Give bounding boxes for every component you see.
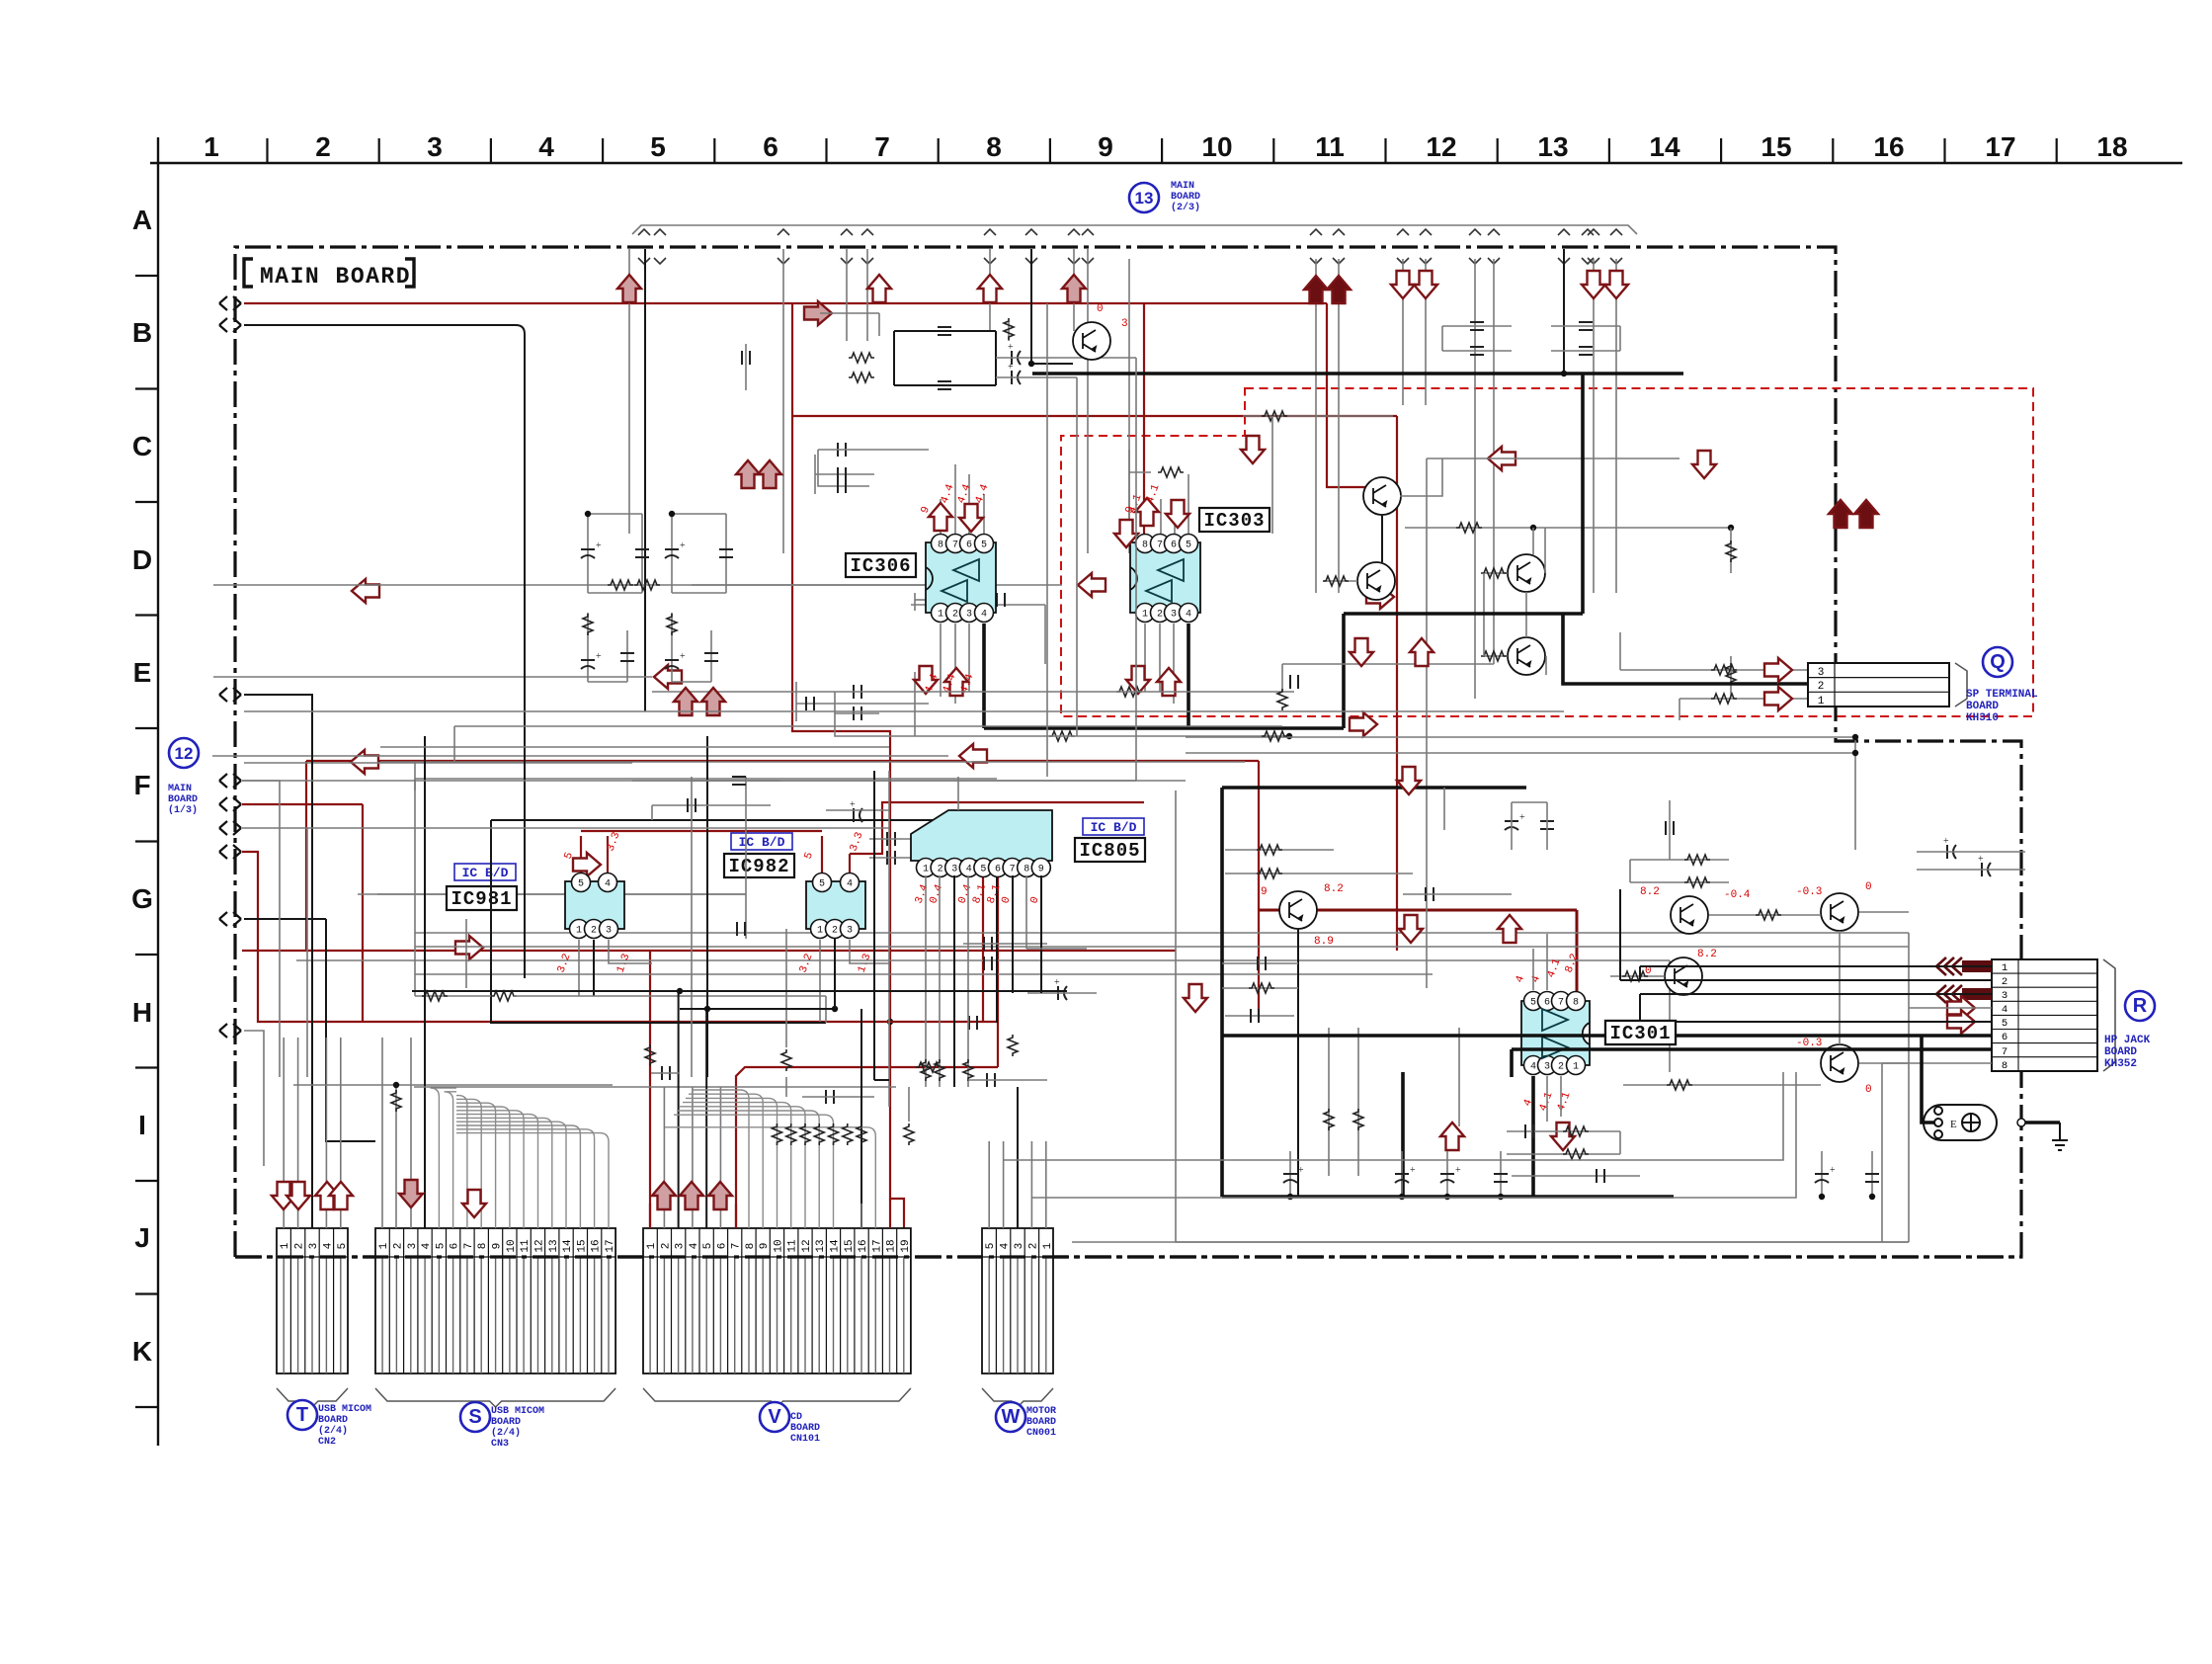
svg-text:15: 15 xyxy=(1761,131,1791,162)
svg-text:1: 1 xyxy=(2002,962,2007,974)
svg-text:7: 7 xyxy=(1010,865,1016,875)
resistor xyxy=(1116,687,1142,697)
wire xyxy=(914,672,916,736)
wire xyxy=(894,330,996,332)
svg-text:8: 8 xyxy=(477,1243,489,1250)
signal bus xyxy=(296,959,1670,961)
resistor xyxy=(1563,1149,1589,1159)
svg-text:B: B xyxy=(132,317,152,348)
board crossing xyxy=(1588,229,1599,264)
main board boundary bottom xyxy=(235,1255,2021,1258)
resistor xyxy=(1481,651,1507,661)
label IC301 xyxy=(1605,1021,1676,1044)
wire xyxy=(874,1079,889,1081)
resistor xyxy=(786,1123,796,1145)
wire xyxy=(280,780,1136,782)
capacitor xyxy=(938,327,951,335)
main board title xyxy=(244,259,414,290)
svg-text:C: C xyxy=(132,431,152,461)
wire xyxy=(1426,458,1428,988)
svg-text:5: 5 xyxy=(337,1243,349,1250)
svg-text:19: 19 xyxy=(900,1239,912,1252)
IC306 pin 5 xyxy=(975,535,994,553)
signal arrow xyxy=(674,688,697,715)
svg-text:9: 9 xyxy=(492,1243,504,1250)
capacitor xyxy=(838,467,846,481)
wire xyxy=(242,828,307,1077)
capacitor xyxy=(969,1016,977,1030)
wire IC303 pin6 xyxy=(1174,499,1176,534)
svg-text:0: 0 xyxy=(1865,881,1872,893)
wire xyxy=(1425,259,1427,405)
resistor xyxy=(1756,910,1781,920)
svg-text:1: 1 xyxy=(646,1242,658,1249)
board crossing xyxy=(984,229,996,264)
transistor xyxy=(1665,957,1702,995)
svg-text:8.9: 8.9 xyxy=(1314,936,1334,948)
signal arrow xyxy=(351,750,378,774)
capacitor xyxy=(1666,821,1674,835)
wire xyxy=(242,852,998,1022)
wire R pin7 xyxy=(1512,1047,1992,1051)
IC805 pin 4 xyxy=(959,859,978,877)
polarized capacitor xyxy=(1815,1174,1829,1183)
signal arrow xyxy=(1327,276,1351,303)
IC981 pin 4 xyxy=(599,874,617,892)
wire xyxy=(1289,1151,1291,1197)
capacitor xyxy=(806,697,814,710)
IC805 pin 7 xyxy=(1003,859,1022,877)
svg-text:IC301: IC301 xyxy=(1609,1023,1671,1044)
svg-text:K: K xyxy=(132,1336,152,1367)
resistor xyxy=(935,1059,944,1081)
wire USB micom xyxy=(244,695,312,1228)
svg-text:15: 15 xyxy=(844,1239,856,1252)
wire xyxy=(1484,572,1508,574)
svg-text:2: 2 xyxy=(938,865,943,875)
capacitor xyxy=(737,922,745,936)
svg-text:+: + xyxy=(596,651,602,662)
wire xyxy=(410,1038,412,1228)
wire xyxy=(1030,1141,1032,1228)
wire xyxy=(953,875,955,1087)
svg-text:17: 17 xyxy=(871,1239,883,1252)
board edge node xyxy=(219,774,241,788)
signal arrow xyxy=(1440,1123,1464,1150)
board edge node xyxy=(219,845,241,859)
wire xyxy=(894,384,996,386)
svg-text:IC303: IC303 xyxy=(1203,510,1265,532)
wire xyxy=(1854,737,1856,850)
wire xyxy=(242,781,280,1077)
signal arrow xyxy=(959,744,987,768)
signal arrow xyxy=(1350,638,1373,666)
wire xyxy=(1532,949,1534,990)
wire xyxy=(911,604,1045,606)
junction xyxy=(1819,1194,1825,1200)
wire xyxy=(1186,752,1855,754)
polarized capacitor xyxy=(1012,351,1021,365)
IC805 pin 5 xyxy=(974,859,993,877)
sheet ref R xyxy=(2125,991,2155,1021)
junction xyxy=(585,511,591,517)
wire xyxy=(453,726,455,763)
capacitor xyxy=(1426,887,1434,901)
sheet ref S xyxy=(460,1402,490,1432)
wire xyxy=(362,804,364,1022)
wire xyxy=(1327,303,1365,487)
svg-text:+: + xyxy=(1008,362,1014,373)
wire xyxy=(915,599,929,601)
wire xyxy=(649,1204,651,1228)
wire xyxy=(1446,1151,1448,1197)
wire xyxy=(651,805,653,820)
capacitor xyxy=(987,1073,995,1087)
svg-text:S: S xyxy=(468,1406,481,1428)
wire xyxy=(1271,416,1273,534)
board edge node xyxy=(219,296,241,310)
svg-text:0: 0 xyxy=(1865,1084,1872,1096)
wire xyxy=(1044,605,1046,664)
svg-text:8.2: 8.2 xyxy=(1697,949,1717,960)
svg-text:+: + xyxy=(1519,812,1525,823)
wire xyxy=(395,1085,397,1228)
resistor xyxy=(1622,971,1648,981)
svg-text:13: 13 xyxy=(548,1239,560,1252)
capacitor xyxy=(854,685,861,699)
svg-text:2: 2 xyxy=(1558,1062,1564,1073)
wire xyxy=(888,771,890,1107)
board edge node xyxy=(219,912,241,926)
sheet ref Q xyxy=(1983,647,2012,677)
wire xyxy=(1593,259,1595,593)
wire xyxy=(782,249,784,553)
wire xyxy=(869,857,943,859)
IC303 pin 1 xyxy=(1136,604,1155,623)
signal arrow xyxy=(352,579,379,603)
board edge node xyxy=(219,1024,241,1038)
wire to IC303 pin8 xyxy=(1143,303,1145,538)
svg-text:17: 17 xyxy=(1985,131,2015,162)
capacitor xyxy=(1579,347,1593,355)
op-amp IC303b xyxy=(1146,580,1172,602)
wire xyxy=(995,331,997,385)
signal arrow xyxy=(573,853,601,876)
resistor xyxy=(921,1059,931,1081)
wire xyxy=(691,777,693,1077)
svg-text:4: 4 xyxy=(847,879,853,890)
svg-text:+: + xyxy=(1830,1165,1836,1176)
wire IC306 pin6 xyxy=(968,474,970,534)
wire xyxy=(1639,994,1641,1022)
svg-text:IC981: IC981 xyxy=(451,888,512,910)
wire xyxy=(1400,458,1442,496)
wire xyxy=(306,760,1259,762)
IC301 pin 4 xyxy=(1524,1056,1543,1075)
connector CN001 motor board W xyxy=(982,1228,1054,1407)
signal arrow xyxy=(654,665,682,689)
svg-text:4: 4 xyxy=(981,610,987,621)
wire xyxy=(1442,350,1512,352)
junction xyxy=(1728,525,1734,531)
wire IC303 pin7 xyxy=(1160,499,1162,534)
junction node xyxy=(2017,1119,2025,1126)
signal arrow xyxy=(736,460,760,488)
resistor xyxy=(916,1062,942,1072)
svg-text:+: + xyxy=(680,651,686,662)
wire xyxy=(283,1038,285,1228)
svg-text:4: 4 xyxy=(1186,610,1191,621)
wire xyxy=(988,1141,990,1228)
transistor xyxy=(1279,891,1317,929)
svg-text:6: 6 xyxy=(763,131,778,162)
polarized capacitor xyxy=(1058,986,1067,1000)
svg-text:2: 2 xyxy=(392,1243,404,1250)
wire xyxy=(692,1087,694,1188)
svg-text:4: 4 xyxy=(421,1242,433,1249)
board crossing xyxy=(1025,229,1037,264)
ruler column numbers 1-18 xyxy=(204,131,2127,162)
coupling capacitor xyxy=(742,351,750,365)
wire IC981 pin5 xyxy=(580,836,582,882)
IC303 pin 6 xyxy=(1165,535,1184,553)
resistor xyxy=(1324,1109,1334,1130)
svg-text:V: V xyxy=(768,1406,781,1428)
IC805 pin 9 xyxy=(1031,859,1050,877)
junction xyxy=(1561,371,1567,376)
wire from IC805 pin5 xyxy=(982,875,984,1022)
label IC805 xyxy=(1075,838,1145,862)
wire xyxy=(1619,326,1621,351)
svg-text:2: 2 xyxy=(591,926,597,937)
wire xyxy=(326,919,375,1141)
wire xyxy=(1442,325,1512,327)
wire from IC805 pin6 xyxy=(997,875,999,1067)
wire xyxy=(1025,875,1027,949)
svg-text:7: 7 xyxy=(1157,541,1163,551)
wire xyxy=(1222,987,1298,989)
bus arrow R xyxy=(1936,985,1992,1003)
IC805 pin 6 xyxy=(989,859,1008,877)
signal arrow xyxy=(1764,658,1792,682)
wire xyxy=(939,875,941,1087)
svg-text:18: 18 xyxy=(2096,131,2127,162)
signal arrow xyxy=(1764,687,1792,710)
svg-text:7: 7 xyxy=(463,1243,475,1250)
wire xyxy=(818,449,929,451)
wire xyxy=(1615,259,1617,593)
svg-text:3: 3 xyxy=(951,865,957,875)
wire xyxy=(380,761,1245,763)
resistor xyxy=(781,1049,791,1071)
signal arrow xyxy=(1184,984,1207,1012)
wire xyxy=(1258,910,1260,1016)
junction xyxy=(887,1019,893,1025)
wire xyxy=(516,325,525,978)
svg-text:14: 14 xyxy=(1649,131,1680,162)
transistor xyxy=(1363,477,1401,515)
wire xyxy=(1669,800,1671,860)
svg-text:2: 2 xyxy=(2002,976,2007,988)
wire IC303 pin4 xyxy=(1187,624,1190,728)
wire R pin6 xyxy=(1222,1034,1992,1038)
capacitor xyxy=(719,549,733,557)
IC981 pin 1 xyxy=(570,920,589,939)
wire xyxy=(465,919,467,988)
wire to SP board pin2 xyxy=(1563,614,1808,684)
svg-text:A: A xyxy=(132,205,152,235)
wire xyxy=(996,820,998,1023)
wire xyxy=(1630,859,1729,861)
wire xyxy=(1030,249,1032,364)
SP terminal dashed boundary xyxy=(1061,388,2033,716)
svg-text:1: 1 xyxy=(280,1242,291,1249)
wire xyxy=(1917,869,2025,871)
wire xyxy=(989,249,991,331)
wire xyxy=(1581,372,1585,375)
wire xyxy=(796,703,929,705)
wire xyxy=(1222,962,1298,964)
label IC306 xyxy=(846,553,916,577)
IC805 pin 3 xyxy=(945,859,964,877)
wire xyxy=(1546,934,1548,990)
wire xyxy=(792,415,1397,417)
wire xyxy=(826,809,889,811)
junction xyxy=(677,988,683,994)
sheet ref 13 xyxy=(1129,183,1159,212)
svg-text:4: 4 xyxy=(1000,1242,1012,1249)
wire xyxy=(1315,259,1317,593)
signal arrow xyxy=(1488,447,1516,470)
svg-text:1: 1 xyxy=(378,1242,390,1249)
signal arrow xyxy=(944,668,968,696)
svg-text:+: + xyxy=(596,541,602,551)
wire xyxy=(242,780,280,782)
ruler column ticks xyxy=(268,138,2057,163)
svg-text:14: 14 xyxy=(830,1239,842,1253)
wire xyxy=(1507,1153,1620,1155)
board edge node xyxy=(219,688,241,702)
wire xyxy=(873,771,875,1080)
op-amp IC981 xyxy=(565,881,624,929)
svg-text:13: 13 xyxy=(815,1239,827,1252)
wire IC303 pin2 xyxy=(1159,624,1161,692)
wire xyxy=(1458,1028,1460,1126)
wire xyxy=(491,820,826,1023)
wire xyxy=(1839,931,1841,1044)
wire xyxy=(825,996,827,1023)
wire xyxy=(1281,664,1283,692)
capacitor xyxy=(1251,1009,1259,1023)
signal arrow xyxy=(1582,271,1605,298)
wire xyxy=(587,514,589,593)
signal arrow xyxy=(1241,436,1265,463)
wire IC306 pin8 xyxy=(940,499,942,534)
op-amp IC303 body xyxy=(1130,542,1200,613)
svg-text:11: 11 xyxy=(787,1239,799,1253)
wire xyxy=(967,875,969,1087)
wire xyxy=(1128,259,1130,553)
wire xyxy=(1871,1151,1873,1197)
wire xyxy=(244,762,632,764)
resistor xyxy=(1008,1035,1018,1056)
IC303 pin 8 xyxy=(1136,535,1155,553)
wire IC303 pin1 xyxy=(1144,624,1146,692)
signal bus xyxy=(414,1086,896,1088)
svg-text:10: 10 xyxy=(774,1239,785,1252)
wire xyxy=(1225,1015,1294,1017)
wire IC306 pin7 xyxy=(954,464,956,534)
wire xyxy=(1396,416,1398,951)
IC805 pin 8 xyxy=(1018,859,1036,877)
wire xyxy=(834,939,836,1009)
label IC301 xyxy=(1605,1021,1676,1044)
svg-text:J: J xyxy=(134,1222,150,1253)
wire xyxy=(358,893,746,895)
wire xyxy=(2021,1121,2060,1124)
wire xyxy=(1220,788,1224,1197)
wire headphone amp top xyxy=(1222,786,1526,790)
IC982 pin 1 xyxy=(811,920,830,939)
wire xyxy=(672,592,726,594)
wire xyxy=(1512,1175,1640,1177)
svg-text:14: 14 xyxy=(562,1239,574,1253)
svg-text:3: 3 xyxy=(1818,667,1825,679)
wire xyxy=(957,777,959,810)
wire xyxy=(1357,1028,1359,1176)
IC B/D label xyxy=(454,864,516,880)
signal arrow xyxy=(867,275,891,302)
svg-text:13: 13 xyxy=(1537,131,1568,162)
svg-text:8.2: 8.2 xyxy=(1640,886,1660,898)
svg-text:IC B/D: IC B/D xyxy=(462,866,509,880)
wire xyxy=(1403,893,1512,895)
junction xyxy=(1287,1194,1293,1200)
wire IC306 pin3 xyxy=(968,624,970,692)
wire xyxy=(628,249,630,534)
wire xyxy=(1045,1141,1047,1228)
junction xyxy=(1498,1194,1504,1200)
wire to CD board pin7 xyxy=(736,1067,998,1228)
wire xyxy=(834,940,836,996)
signal bus xyxy=(415,932,1909,934)
wire xyxy=(1297,929,1299,1197)
svg-text:8: 8 xyxy=(1142,541,1148,551)
wire xyxy=(745,777,747,939)
board crossing xyxy=(1082,229,1094,264)
board crossing xyxy=(1558,229,1570,264)
polarized capacitor xyxy=(581,549,595,558)
capacitor xyxy=(1579,322,1593,330)
wire xyxy=(692,780,780,782)
signal arrow xyxy=(1947,996,1975,1020)
wire xyxy=(1908,933,1910,1072)
signal bus xyxy=(415,946,1909,948)
capacitor xyxy=(662,1066,670,1080)
wire xyxy=(1003,1141,1005,1228)
wire xyxy=(1258,761,1260,910)
svg-text:3: 3 xyxy=(1544,1062,1550,1073)
signal arrow xyxy=(1604,271,1628,298)
svg-text:15: 15 xyxy=(576,1239,588,1252)
svg-text:7: 7 xyxy=(731,1243,743,1250)
svg-text:12: 12 xyxy=(1426,131,1456,162)
wire xyxy=(1881,1063,1883,1242)
connector CN3 USB micom S xyxy=(375,1228,616,1407)
polarized capacitor xyxy=(1395,1174,1409,1183)
signal arrow xyxy=(1947,1010,1975,1034)
signal arrow xyxy=(272,1182,295,1209)
